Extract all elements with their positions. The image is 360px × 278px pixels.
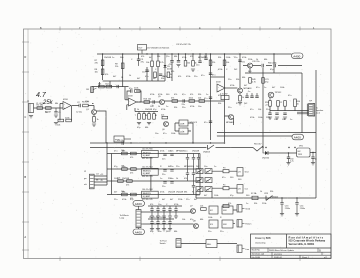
rail junction dots [106, 142, 295, 148]
capacitor C21 [162, 170, 167, 176]
svg-text:33k: 33k [270, 191, 273, 193]
svg-text:C: C [131, 59, 133, 61]
capacitor C47 [311, 152, 317, 165]
capacitor C25 tall [186, 154, 189, 170]
svg-text:4558: 4558 [128, 96, 133, 98]
feedback resistor R15 [134, 88, 140, 93]
svg-text:.22: .22 [265, 104, 268, 106]
bridge rectifier CR6 [205, 187, 212, 192]
svg-text:1k: 1k [97, 119, 100, 121]
capacitor C16 [245, 93, 248, 98]
svg-text:1N4003: 1N4003 [203, 152, 211, 154]
svg-text:33k: 33k [174, 107, 177, 109]
svg-text:560: 560 [166, 94, 170, 96]
fuse F6 [223, 204, 229, 207]
svg-text:4k7: 4k7 [244, 85, 248, 87]
capacitor C3 [137, 59, 145, 66]
svg-text:220k: 220k [266, 117, 270, 119]
capacitor C32 fx [156, 206, 160, 218]
svg-text:Q1: Q1 [86, 109, 90, 111]
resistor R7 [95, 60, 104, 66]
svg-text:22n: 22n [162, 158, 165, 160]
wire EQ right vertical [199, 154, 201, 195]
resistor R32 [121, 166, 127, 171]
svg-text:4558: 4558 [216, 82, 221, 84]
wire opto connections [175, 123, 193, 143]
resistor R17 [171, 98, 178, 103]
svg-text:R: R [236, 103, 238, 105]
svg-text:Line: Line [245, 249, 250, 251]
resistor R37 [130, 193, 136, 200]
svg-text:47u: 47u [212, 75, 215, 77]
svg-text:47k: 47k [184, 178, 187, 180]
transistor Q8 [193, 221, 199, 229]
svg-text:47p: 47p [150, 231, 154, 233]
bridge rectifier CR2 [205, 169, 212, 174]
svg-text:4k7: 4k7 [137, 78, 141, 80]
fuse F4 [212, 184, 237, 189]
svg-text:CR9: CR9 [264, 193, 269, 195]
svg-text:47k: 47k [95, 63, 99, 65]
svg-text:47u: 47u [141, 62, 145, 64]
feedback capacitor C11 [129, 88, 133, 93]
tone stack wire [135, 108, 158, 112]
sub-bus wire y81 [103, 80, 165, 82]
resistor R23 tone [135, 112, 142, 125]
title block divider vertical [286, 234, 288, 248]
svg-text:1u: 1u [264, 87, 266, 89]
capacitor C19 [162, 154, 167, 160]
title block row line 3 [251, 254, 332, 256]
diode D4 [264, 193, 278, 201]
jack J5 [237, 220, 251, 227]
svg-text:470k: 470k [163, 76, 167, 78]
svg-text:R61 4k7: R61 4k7 [254, 144, 262, 146]
svg-text:J1: J1 [27, 101, 30, 103]
resistor R36 [121, 191, 127, 196]
svg-text:4k7: 4k7 [272, 87, 276, 89]
svg-text:22n: 22n [162, 186, 165, 188]
svg-text:47u: 47u [169, 64, 172, 66]
resistor R13 [191, 54, 197, 71]
svg-text:Loop: Loop [120, 218, 125, 220]
svg-text:47p: 47p [153, 109, 157, 111]
off-page oval A400 fx2 [133, 228, 145, 235]
wire y73 right [245, 72, 302, 74]
svg-text:1u: 1u [248, 91, 250, 93]
svg-text:47k: 47k [141, 56, 144, 58]
capacitor C9 on drop [204, 121, 212, 124]
capacitor C35 fx [174, 206, 178, 218]
capacitor C18 [255, 93, 258, 98]
svg-text:C32 47u R47 22k: C32 47u R47 22k [176, 44, 191, 46]
wire right col x302 [301, 73, 303, 133]
resistor R9 [115, 63, 124, 69]
transistor Q9 driver [226, 115, 235, 124]
svg-text:RG80-01: RG80-01 [274, 257, 283, 259]
svg-text:100k: 100k [226, 57, 230, 59]
resistor R50 on drop [223, 60, 229, 66]
svg-text:10n: 10n [198, 106, 201, 108]
svg-text:22k: 22k [212, 62, 215, 64]
svg-text:47p: 47p [129, 88, 133, 90]
svg-text:4.7k: 4.7k [160, 62, 165, 64]
svg-text:100k: 100k [114, 178, 118, 180]
svg-text:1u: 1u [290, 119, 292, 121]
capacitor C31 fx [150, 206, 154, 218]
svg-text:100k: 100k [280, 87, 284, 89]
svg-text:R16 10k: R16 10k [144, 99, 151, 101]
resistor R1 [37, 105, 45, 110]
bridge rectifier CR5 [196, 187, 203, 192]
component value labels mid band [150, 57, 248, 109]
svg-text:47k: 47k [174, 94, 177, 96]
svg-text:10k: 10k [146, 62, 150, 64]
scan noise dots [24, 29, 330, 258]
svg-text:470k: 470k [158, 94, 162, 96]
bridge rectifier CR4 [205, 178, 212, 183]
transistor Q2 [238, 87, 253, 93]
feedback wires U1B [127, 91, 141, 102]
capacitor C27 tall [197, 154, 200, 170]
resistor R24 tone [143, 112, 148, 120]
svg-text:A400: A400 [135, 230, 142, 234]
capacitor C40 [286, 152, 293, 165]
capacitor C39 fx [168, 219, 172, 231]
svg-text:BA3812L: BA3812L [143, 192, 152, 195]
capacitor C14 [262, 63, 277, 68]
capacitor C30 [192, 181, 195, 195]
capacitor C51 on drop [238, 60, 245, 64]
svg-text:C40 47u R60: C40 47u R60 [142, 148, 153, 150]
wire stage2 row [92, 82, 129, 87]
svg-text:47u: 47u [145, 76, 148, 78]
svg-text:TIP: TIP [309, 101, 313, 103]
diode box CR8 [237, 185, 248, 193]
transistor Q3 [248, 61, 260, 68]
svg-text:68k: 68k [55, 103, 58, 105]
wire U3 out [225, 87, 237, 89]
resistor R5 [82, 102, 90, 107]
input row value labels [36, 101, 89, 114]
svg-text:4k7: 4k7 [170, 199, 174, 201]
svg-text:220k: 220k [178, 199, 182, 201]
svg-text:1M: 1M [86, 89, 89, 91]
capacitor C46 [283, 113, 287, 119]
svg-text:2: 2 [279, 26, 281, 30]
svg-text:2200u: 2200u [285, 208, 290, 210]
svg-text:C: C [148, 71, 150, 73]
svg-text:10k: 10k [200, 206, 203, 208]
svg-text:4k7: 4k7 [204, 195, 208, 197]
svg-text:J2: J2 [84, 171, 87, 173]
svg-text:4.7: 4.7 [36, 92, 47, 99]
svg-text:4k7: 4k7 [113, 76, 117, 78]
border tick marks [22, 27, 300, 262]
svg-text:R: R [220, 217, 222, 219]
svg-text:22n: 22n [234, 57, 237, 59]
capacitor C36 fx [150, 219, 154, 231]
label To Speaker Jack [316, 108, 324, 115]
pot P1 box [114, 136, 131, 142]
svg-text:6: 6 [119, 26, 121, 30]
resistor R43 tall [294, 99, 300, 107]
capacitor C1 [54, 108, 62, 117]
svg-text:A400: A400 [293, 54, 300, 58]
resistor R16 [144, 99, 151, 104]
capacitor C38 fx [162, 219, 166, 231]
svg-text:CR: CR [238, 172, 241, 174]
svg-text:C39 10u: C39 10u [117, 140, 124, 142]
svg-text:22n: 22n [162, 174, 165, 176]
svg-text:Vernon Hills, IL 60061: Vernon Hills, IL 60061 [289, 243, 315, 246]
svg-text:Q6: Q6 [162, 129, 166, 131]
IC U7 [142, 166, 159, 178]
svg-text:47u: 47u [250, 109, 253, 111]
svg-text:1k: 1k [192, 166, 194, 168]
svg-text:Out: Out [245, 188, 249, 191]
svg-text:47k: 47k [178, 76, 181, 78]
capacitor C13 [182, 99, 185, 106]
svg-text:+15V 1N4148 C31 R44 10k: +15V 1N4148 C31 R44 10k [146, 48, 169, 50]
svg-text:4k7: 4k7 [194, 199, 198, 201]
capacitor C39 on rail [117, 140, 124, 145]
svg-text:22u: 22u [168, 178, 171, 180]
jack J6 [237, 245, 250, 252]
diode box CR7 [237, 168, 248, 176]
title block row line 1 [251, 247, 332, 249]
svg-text:4: 4 [199, 26, 201, 30]
capacitor C6 [196, 54, 202, 67]
EQ line 3 wire [107, 180, 200, 182]
svg-text:47k: 47k [171, 98, 174, 100]
svg-text:47u: 47u [163, 133, 166, 135]
svg-text:C2 22u: C2 22u [76, 112, 82, 114]
resistor R45 sub [154, 72, 157, 78]
emitter resistor R41 [277, 101, 283, 107]
rail wire y147 [90, 147, 253, 149]
svg-text:Gain: Gain [105, 83, 109, 85]
svg-text:R5 47k: R5 47k [82, 102, 90, 104]
svg-text:68k: 68k [184, 192, 187, 194]
svg-text:100k: 100k [171, 133, 175, 135]
wire bus drop x274 [273, 54, 275, 73]
svg-text:470k: 470k [242, 57, 246, 59]
svg-text:10k: 10k [182, 219, 185, 221]
resistor R31 [130, 152, 136, 159]
svg-text:4k7: 4k7 [162, 199, 166, 201]
svg-text:wht: wht [84, 183, 87, 186]
svg-text:B: B [24, 175, 26, 179]
capacitor C28 [186, 169, 189, 181]
capacitor C22 [170, 166, 174, 171]
svg-text:M: M [145, 115, 147, 117]
svg-text:EQ AMP: EQ AMP [143, 154, 151, 157]
svg-text:R70 10k C45: R70 10k C45 [142, 199, 153, 201]
svg-text:REL: REL [207, 244, 212, 246]
wire bridge to rail [196, 192, 212, 198]
svg-text:560: 560 [246, 195, 250, 197]
svg-text:1: 1 [313, 26, 315, 30]
svg-text:47k: 47k [105, 74, 108, 76]
EQ line 2 wire [107, 168, 200, 170]
title block row line 2 [251, 251, 332, 253]
title block drawn-by text [255, 237, 271, 245]
op-amp U1B [128, 96, 137, 107]
connector J2 pin wires [94, 143, 107, 185]
svg-text:22u: 22u [114, 199, 117, 201]
svg-text:C: C [155, 69, 157, 71]
svg-text:T: T [135, 115, 137, 117]
svg-text:1k: 1k [170, 74, 172, 76]
capacitor C15 [270, 64, 276, 71]
box footswitch buffer [206, 240, 217, 248]
svg-text:47k: 47k [98, 83, 101, 85]
svg-text:68k: 68k [200, 219, 203, 221]
svg-text:100k: 100k [214, 195, 218, 197]
handwritten note 25k [42, 100, 54, 106]
svg-text:47k: 47k [190, 94, 193, 96]
opto U4 [179, 120, 188, 126]
svg-text:LDR: LDR [180, 123, 185, 125]
svg-text:1k: 1k [176, 178, 178, 180]
resistor R30 [121, 150, 127, 155]
svg-text:A: A [24, 235, 26, 239]
svg-text:4k7: 4k7 [114, 192, 118, 194]
svg-text:10k: 10k [258, 109, 261, 111]
svg-text:47k: 47k [190, 56, 193, 58]
svg-text:Drawn by BBB: Drawn by BBB [255, 237, 271, 240]
connector J7 footswitch [176, 239, 181, 248]
capacitor C49 sub [159, 74, 165, 78]
resistor R48 stage2 [98, 83, 104, 88]
svg-text:RG80 Bass Schem Update: RG80 Bass Schem Update [269, 249, 295, 252]
connector J2 [90, 174, 95, 189]
EQ line 1 wire [107, 153, 200, 155]
EQ line 4 wire [107, 194, 200, 196]
svg-text:470k: 470k [190, 106, 194, 108]
svg-text:68k: 68k [174, 231, 177, 233]
svg-text:C2: C2 [77, 102, 81, 104]
regulator resistor R39 slant [253, 144, 263, 151]
svg-text:K2: K2 [210, 210, 213, 212]
rail pair wire y133 [217, 70, 316, 198]
capacitor C10 [117, 85, 119, 88]
capacitor C12 [152, 100, 155, 107]
label To Foot Switch [160, 240, 167, 246]
svg-text:68k: 68k [174, 56, 177, 58]
svg-text:22k: 22k [115, 66, 119, 68]
resistor R12 [184, 54, 190, 66]
svg-text:33k: 33k [198, 94, 201, 96]
connector J3 effects [136, 206, 141, 227]
svg-text:470k: 470k [182, 57, 186, 59]
svg-text:47k: 47k [130, 172, 133, 174]
resistor R25 tone [147, 112, 151, 125]
sub-bus drops [110, 62, 172, 87]
volume pot VR1 [86, 87, 97, 93]
wire U1B out [137, 101, 160, 103]
output transistor Q11 [268, 92, 282, 98]
svg-text:1N4148: 1N4148 [145, 109, 153, 111]
svg-text:grn: grn [84, 178, 87, 180]
svg-text:Gnd: Gnd [245, 172, 249, 174]
svg-text:10n: 10n [204, 166, 207, 168]
svg-text:1u: 1u [112, 57, 114, 59]
fuse F3 [212, 167, 237, 172]
svg-text:560: 560 [238, 179, 242, 181]
svg-text:4k7: 4k7 [153, 78, 157, 80]
svg-text:BA3812L: BA3812L [143, 169, 152, 172]
capacitor C33 fx [162, 206, 166, 218]
svg-text:22n: 22n [194, 76, 197, 78]
page border frame [24, 29, 332, 259]
svg-text:22n: 22n [228, 79, 231, 81]
svg-text:C: C [226, 69, 228, 71]
svg-text:Checked by: Checked by [255, 243, 266, 245]
title block outer [251, 234, 332, 258]
svg-text:10n: 10n [274, 119, 277, 121]
svg-text:Q5: Q5 [158, 96, 162, 98]
svg-text:1M: 1M [45, 112, 48, 114]
bus junction dots [102, 53, 275, 54]
svg-text:1N4148: 1N4148 [176, 192, 184, 194]
svg-text:LDR: LDR [180, 131, 185, 133]
svg-text:47u: 47u [114, 151, 117, 153]
svg-text:22n: 22n [182, 107, 185, 109]
svg-text:3: 3 [239, 26, 241, 30]
label To Effects Loop [120, 214, 129, 220]
op-amp U1A [63, 99, 71, 110]
resistor R19 [198, 98, 205, 103]
wire jumper y77 [211, 76, 225, 78]
svg-text:C20 22n: C20 22n [252, 61, 260, 63]
svg-text:33k: 33k [218, 57, 221, 59]
resistor R3 feedback [57, 119, 64, 126]
label TIP [309, 101, 313, 103]
svg-text:Jack: Jack [316, 113, 321, 115]
svg-text:TIP33C: TIP33C [275, 92, 282, 94]
svg-text:F4: F4 [223, 184, 226, 186]
diode D1 [164, 54, 173, 73]
svg-text:1u: 1u [214, 166, 216, 168]
off-page oval A400 top [292, 53, 304, 59]
label opto [190, 122, 198, 124]
svg-text:470k: 470k [161, 109, 165, 111]
svg-text:1N4744: 1N4744 [262, 158, 270, 160]
resistor R27 [161, 114, 168, 119]
svg-text:47u: 47u [288, 95, 291, 97]
capacitor C20 [170, 151, 174, 156]
B+ bus wire [97, 53, 292, 55]
capacitor C48 sub [142, 70, 149, 74]
svg-text:7815: 7815 [298, 154, 303, 156]
svg-text:100k: 100k [208, 217, 212, 219]
svg-text:470k: 470k [160, 151, 164, 153]
svg-text:+15: +15 [100, 174, 103, 176]
svg-text:22u: 22u [220, 231, 223, 233]
svg-text:47p: 47p [230, 195, 234, 197]
wire regulator out [310, 152, 316, 154]
handwritten note 4.7 [36, 92, 47, 99]
opto U5 [179, 128, 188, 134]
svg-text:10u: 10u [196, 65, 199, 67]
transistor Q6 [162, 122, 169, 132]
svg-text:22u 22u 22u 22u 22u: 22u 22u 22u 22u 22u [149, 217, 166, 219]
label mid bus [176, 44, 191, 46]
svg-text:22u: 22u [184, 151, 187, 153]
svg-text:10: 10 [297, 103, 299, 105]
